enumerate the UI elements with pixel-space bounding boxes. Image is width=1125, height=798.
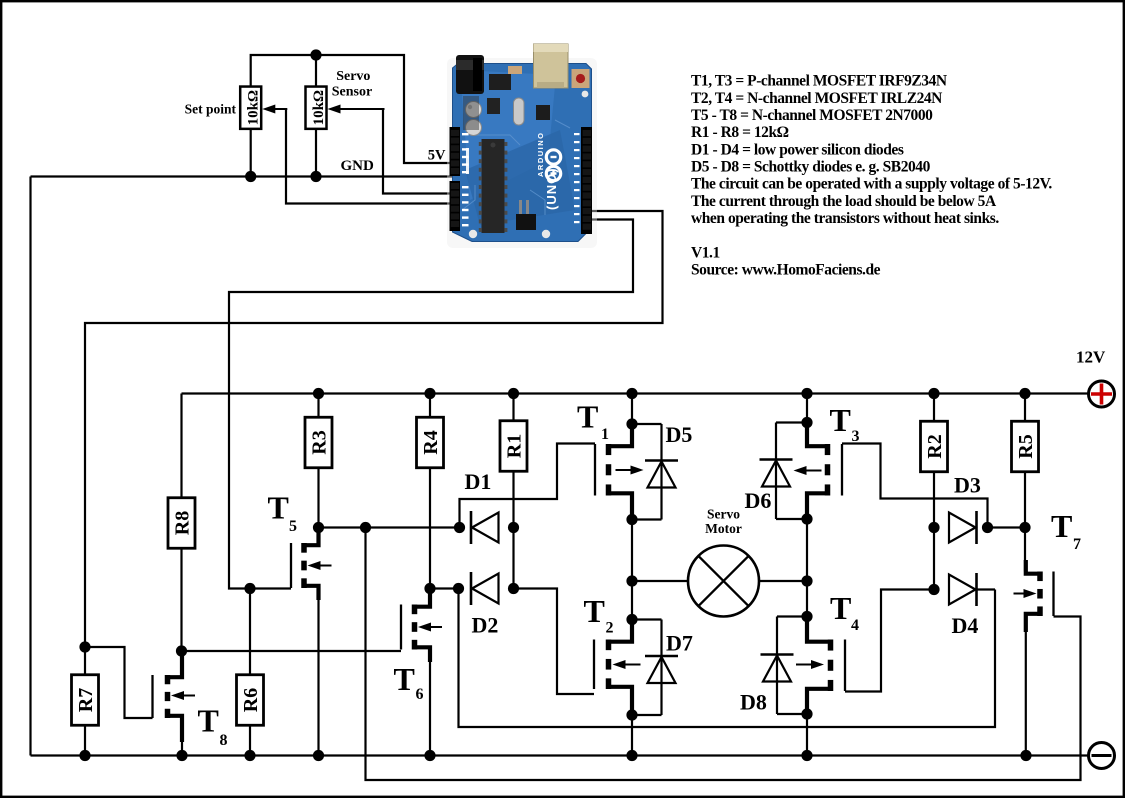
- Arduino reset button: [572, 69, 590, 88]
- wire P1 bottom: [250, 129, 252, 177]
- node T2 rail: [626, 750, 637, 761]
- resistor R5: [1012, 421, 1039, 472]
- resistor R7: [72, 675, 99, 726]
- wire D2 to T2 gate: [514, 589, 595, 695]
- svg-text:T2, T4 = N-channel MOSFET IRLZ: T2, T4 = N-channel MOSFET IRLZ24N: [691, 90, 942, 107]
- wire R5 to T7: [1024, 472, 1026, 572]
- svg-text:R3: R3: [309, 430, 331, 454]
- wire R1 col D1 to D2: [512, 528, 514, 589]
- svg-text:The circuit can be operated wi: The circuit can be operated with a suppl…: [691, 176, 1052, 193]
- wire T3 drain to motor node: [806, 519, 808, 581]
- arrow T8: [171, 691, 195, 700]
- wire T7 source to rail: [1025, 630, 1027, 756]
- node T1 drain D5: [626, 514, 637, 525]
- svg-text:Servo: Servo: [707, 507, 740, 522]
- node D4 anode: [928, 584, 939, 595]
- arrow T6: [418, 623, 442, 632]
- svg-text:V1.1: V1.1: [691, 244, 720, 261]
- arrow T7: [1014, 589, 1037, 598]
- terminal +12V: [1089, 381, 1115, 407]
- svg-text:T: T: [584, 593, 605, 629]
- node D3 cathode: [982, 522, 993, 533]
- wire T8 source to rail: [181, 740, 183, 756]
- svg-text:Servo: Servo: [336, 69, 370, 84]
- svg-text:when operating the transistors: when operating the transistors without h…: [691, 210, 999, 227]
- Arduino crystal: [514, 98, 525, 125]
- arrow T2: [613, 660, 641, 669]
- svg-text:D7: D7: [666, 631, 693, 656]
- potentiometer P1 Set point 10k: [240, 87, 262, 129]
- node R6 bottom rail: [244, 750, 255, 761]
- Arduino ICSP header: [516, 200, 536, 230]
- wire rail to R4: [429, 394, 431, 418]
- node T3 rail: [801, 388, 812, 399]
- wire R2 to D3: [933, 472, 935, 528]
- transistor T3 body: [807, 423, 842, 520]
- svg-text:R8: R8: [172, 511, 194, 535]
- node T3 source D6: [801, 417, 812, 428]
- diode D7 leads: [660, 620, 662, 716]
- diode D7: [645, 656, 678, 683]
- node P2 bottom GND: [310, 171, 321, 182]
- wire T8 gate route: [85, 647, 153, 718]
- Arduino ATmega328 chip: [479, 139, 508, 233]
- wire D3 to R5 node: [988, 526, 1026, 528]
- Arduino Uno board: [447, 58, 597, 248]
- node T5/T7-gate junction: [360, 522, 371, 533]
- wire T4 gate route: [845, 590, 934, 692]
- diode D8: [761, 655, 794, 682]
- label T8: [198, 703, 228, 750]
- transistor Q T8 body: [153, 651, 183, 742]
- node D1 anode R1: [508, 522, 519, 533]
- node R1 rail: [508, 388, 519, 399]
- resistor R6: [237, 675, 264, 726]
- svg-text:10kΩ: 10kΩ: [246, 90, 262, 125]
- svg-text:8: 8: [220, 732, 228, 749]
- transistor T1 body: [595, 424, 632, 520]
- wire motor right lead: [759, 580, 807, 582]
- wire rail to R8: [180, 394, 182, 499]
- node motor left: [626, 575, 637, 586]
- wire T8 drain to T6 gate: [182, 650, 402, 652]
- label T4: [830, 590, 859, 634]
- resistor R4: [417, 417, 444, 468]
- node T2 drain D7: [626, 614, 637, 625]
- node P1 bottom GND: [245, 171, 256, 182]
- node T4 source D8: [801, 708, 812, 719]
- diode D3: [949, 511, 977, 544]
- diode D5 leads: [660, 424, 662, 520]
- wire P2 bottom: [315, 129, 317, 177]
- diode D5: [645, 461, 678, 488]
- svg-text:T: T: [830, 402, 851, 438]
- label T7: [1051, 508, 1081, 553]
- node T8 drain: [176, 645, 187, 656]
- node T5 drain: [313, 522, 324, 533]
- node T6 drain: [424, 583, 435, 594]
- svg-text:R5: R5: [1015, 434, 1037, 458]
- wire T7 gate long route: [366, 528, 1081, 781]
- svg-text:T1, T3 = P-channel MOSFET IRF9: T1, T3 = P-channel MOSFET IRF9Z34N: [691, 73, 947, 90]
- node R7 bottom rail: [79, 750, 90, 761]
- wire top supply from P1 to 5V corner: [251, 55, 452, 163]
- Arduino right pin headers: [581, 127, 592, 234]
- svg-text:Sensor: Sensor: [332, 85, 372, 100]
- svg-text:D4: D4: [952, 613, 979, 638]
- terminal minus: [1089, 743, 1115, 769]
- wire GND left vertical: [29, 177, 31, 756]
- wire GND rail top: [31, 175, 453, 177]
- wire R1 to D1 node: [512, 471, 514, 528]
- wire T2 drain node to D7 top: [632, 618, 662, 620]
- svg-text:Set point: Set point: [185, 102, 237, 117]
- svg-text:(UNO): (UNO): [544, 167, 559, 210]
- svg-text:D6: D6: [745, 488, 772, 513]
- wire T3 gate route: [842, 444, 988, 528]
- wire T4 source node to D8 bottom: [777, 713, 807, 715]
- svg-text:T: T: [394, 661, 415, 697]
- wire D4 cathode to U wire: [977, 588, 996, 590]
- svg-text:12V: 12V: [1076, 348, 1106, 367]
- wire rail to T3 source: [806, 394, 808, 423]
- svg-text:D5: D5: [666, 422, 693, 447]
- svg-text:R1 - R8 = 12kΩ: R1 - R8 = 12kΩ: [691, 124, 789, 141]
- svg-text:T5 - T8 = N-channel MOSFET 2N7: T5 - T8 = N-channel MOSFET 2N7000: [691, 107, 933, 124]
- wire motor left lead: [632, 580, 688, 582]
- node R7 top / T8 gate: [79, 641, 90, 652]
- transistor T6 body: [401, 589, 430, 663]
- wire rail to R1: [512, 394, 514, 422]
- wire negative rail: [31, 754, 1089, 756]
- wire +12V rail: [182, 392, 1089, 394]
- node T7 source rail: [1020, 750, 1031, 761]
- wire T6 source to rail: [429, 660, 431, 756]
- Arduino mounting holes: [469, 91, 589, 239]
- diode D1: [471, 511, 499, 544]
- wiper arrow P2: [328, 105, 385, 114]
- wire R6 top: [249, 589, 251, 676]
- resistor R3: [305, 417, 332, 468]
- node T1 rail: [626, 388, 637, 399]
- wire T1 source node to D5: [632, 423, 662, 425]
- Arduino digital pin labels: [574, 133, 580, 223]
- svg-text:The current through the load s: The current through the load should be b…: [691, 193, 997, 210]
- svg-text:T: T: [1051, 508, 1072, 544]
- svg-text:1: 1: [601, 426, 609, 443]
- svg-text:D3: D3: [954, 473, 981, 498]
- Arduino voltage regulator: [487, 98, 500, 114]
- arrow T5: [308, 561, 332, 570]
- node R5 D3: [1019, 522, 1030, 533]
- node T4 drain D8: [801, 611, 812, 622]
- wire R4 to T6 drain: [429, 468, 431, 589]
- wire R7 top to W1: [84, 647, 86, 675]
- label T5: [268, 490, 298, 536]
- Arduino left pin headers: [450, 127, 461, 231]
- label T3: [830, 402, 860, 445]
- wire rail to R5: [1024, 394, 1026, 422]
- svg-text:Source: www.HomoFaciens.de: Source: www.HomoFaciens.de: [691, 262, 881, 279]
- wiper arrow P1: [262, 105, 287, 114]
- node R5 rail: [1019, 388, 1030, 399]
- wire T2 source to rail: [631, 715, 633, 756]
- wire P2 wiper to A0: [383, 109, 452, 194]
- wire T3 source node to D6 top: [776, 421, 807, 423]
- svg-text:D1: D1: [465, 469, 492, 494]
- node R2 rail: [928, 388, 939, 399]
- wire P1 wiper to A1: [286, 109, 452, 204]
- svg-text:T: T: [198, 703, 219, 739]
- wire T5 drain node to D1: [319, 526, 460, 528]
- Arduino misc parts top: [463, 66, 522, 130]
- wire T6 drain to D2: [430, 587, 459, 589]
- node GND rail corner: [29, 754, 31, 756]
- label T1: [577, 399, 609, 444]
- node T4 rail: [801, 750, 812, 761]
- node top supply junction: [310, 49, 321, 60]
- svg-text:2: 2: [606, 620, 614, 637]
- node T3 drain D6: [801, 513, 812, 524]
- svg-text:R7: R7: [75, 688, 97, 712]
- transistor T7 body: [1026, 560, 1054, 632]
- svg-text:D2: D2: [472, 613, 499, 638]
- wire D3 to D4 column: [933, 528, 935, 590]
- svg-text:R4: R4: [420, 430, 442, 454]
- potentiometer P2 Servo Sensor 10k: [306, 87, 328, 129]
- wire R6 bottom: [249, 725, 251, 756]
- Arduino power silkscreen: [466, 148, 469, 174]
- node T2 source D7: [626, 709, 637, 720]
- node D1 cathode: [454, 522, 465, 533]
- svg-text:6: 6: [416, 686, 424, 703]
- wire T5 source to rail: [317, 598, 319, 756]
- Arduino electrolytic capacitors: [466, 102, 482, 136]
- Arduino logo: [546, 150, 560, 181]
- svg-text:Motor: Motor: [705, 521, 742, 536]
- transistor T5 body: [291, 528, 319, 601]
- svg-text:10kΩ: 10kΩ: [311, 90, 327, 125]
- wire rail to R2: [933, 394, 935, 422]
- diode D8 leads: [776, 617, 778, 715]
- wire T3 drain node to D6 bottom: [776, 518, 807, 520]
- wire T4 drain node to D8 top: [777, 615, 807, 617]
- wire P2 top: [315, 55, 317, 87]
- svg-text:T: T: [268, 490, 289, 526]
- Arduino USB connector: [534, 44, 569, 88]
- wire rail to T1 source: [631, 394, 633, 425]
- wire R7 bottom: [84, 725, 86, 756]
- transistor T4 body: [807, 617, 845, 715]
- wire R8 to T8 drain node: [180, 548, 182, 651]
- resistor R8: [168, 498, 195, 549]
- node R6 top T5 gate: [244, 583, 255, 594]
- svg-text:4: 4: [851, 617, 859, 634]
- wire T1 drain node to D5 bottom: [632, 518, 662, 520]
- diode D2: [471, 572, 499, 605]
- svg-text:GND: GND: [341, 158, 375, 174]
- svg-text:D1 - D4 = low power silicon di: D1 - D4 = low power silicon diodes: [691, 141, 904, 158]
- svg-text:T: T: [577, 399, 598, 435]
- arrow T3 (P-channel): [794, 466, 822, 475]
- wire motor node to T2 drain: [631, 581, 633, 620]
- wire T4 source to rail: [806, 714, 808, 756]
- wire T2 source node to D7 bottom: [632, 714, 662, 716]
- arrow T1 (P-channel): [616, 466, 644, 475]
- svg-text:R2: R2: [924, 434, 946, 458]
- transistor T2 body: [594, 620, 632, 716]
- node R4 rail: [424, 388, 435, 399]
- svg-text:5V: 5V: [428, 148, 446, 164]
- svg-text:D8: D8: [740, 690, 767, 715]
- Arduino analog pin labels: [462, 133, 469, 226]
- svg-text:R1: R1: [504, 434, 526, 458]
- svg-text:5: 5: [289, 518, 297, 535]
- diode D6 leads: [775, 423, 777, 520]
- node R3 rail: [313, 388, 324, 399]
- node T8 source rail: [176, 750, 187, 761]
- label T6: [394, 661, 424, 703]
- svg-text:R6: R6: [240, 688, 262, 712]
- Arduino DC power jack: [456, 55, 484, 94]
- arrow T4: [796, 660, 824, 669]
- wire W1 Arduino D2 to R7/T8 gate node: [85, 211, 663, 647]
- node D2 anode: [508, 583, 519, 594]
- diode D6: [760, 460, 793, 487]
- wire T1 drain to motor node: [631, 520, 633, 582]
- node motor right: [801, 575, 812, 586]
- node T1 source D5: [626, 418, 637, 429]
- wire R3 to T5 drain: [317, 468, 319, 528]
- node T5 source rail: [313, 750, 324, 761]
- label T2: [584, 593, 614, 637]
- node D3 anode: [928, 522, 939, 533]
- Arduino small IC: [536, 105, 550, 120]
- resistor R1: [500, 421, 527, 472]
- svg-text:T: T: [830, 590, 851, 626]
- svg-text:7: 7: [1073, 536, 1081, 553]
- info text block: [691, 73, 1052, 279]
- node T6 source rail: [424, 750, 435, 761]
- node D2 cathode: [453, 583, 464, 594]
- servo motor: [688, 546, 759, 617]
- wire rail to R3: [317, 394, 319, 418]
- wire W2 Arduino D1 to T5 gate node: [229, 220, 633, 589]
- resistor R2: [921, 421, 948, 472]
- wire motor node to T4 drain: [806, 581, 808, 617]
- wire D1 to T1 gate: [460, 444, 596, 528]
- wire D2 cathode to U wire: [459, 589, 996, 728]
- svg-text:D5 - D8 = Schottky diodes e. g: D5 - D8 = Schottky diodes e. g. SB2040: [691, 159, 931, 176]
- diode D4: [949, 573, 977, 606]
